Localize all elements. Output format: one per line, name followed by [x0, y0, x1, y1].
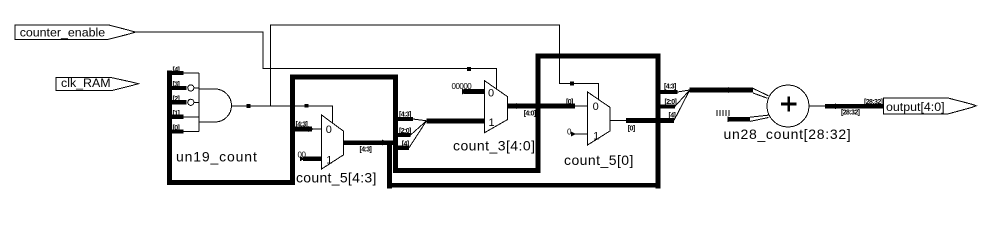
svg-text:count_3[4:0]: count_3[4:0]	[453, 138, 535, 154]
svg-text:[28:32]: [28:32]	[841, 110, 860, 117]
svg-text:[4]: [4]	[669, 113, 676, 120]
svg-text:[4]: [4]	[402, 141, 409, 148]
svg-text:1: 1	[326, 154, 332, 166]
svg-text:0: 0	[488, 88, 494, 100]
svg-text:[4]: [4]	[173, 67, 180, 74]
svg-text:00000: 00000	[452, 82, 473, 91]
svg-text:un28_count[28:32]: un28_count[28:32]	[724, 126, 852, 142]
svg-text:1: 1	[489, 117, 495, 129]
svg-text:[2:0]: [2:0]	[399, 128, 411, 135]
svg-text:00: 00	[298, 151, 307, 160]
svg-text:[1]: [1]	[173, 111, 180, 118]
svg-text:0: 0	[593, 101, 599, 113]
svg-text:0: 0	[326, 124, 332, 136]
svg-text:output[4:0]: output[4:0]	[886, 100, 945, 114]
svg-text:[28:32]: [28:32]	[864, 99, 883, 106]
svg-text:[2]: [2]	[173, 96, 180, 103]
svg-text:[0]: [0]	[628, 126, 635, 133]
svg-text:[4:3]: [4:3]	[360, 147, 372, 154]
svg-text:[4:3]: [4:3]	[399, 112, 411, 119]
svg-text:[4:3]: [4:3]	[664, 84, 676, 91]
svg-text:un19_count: un19_count	[176, 149, 258, 165]
svg-text:1: 1	[593, 130, 599, 142]
svg-text:counter_enable: counter_enable	[20, 25, 106, 39]
svg-text:clk_RAM: clk_RAM	[61, 76, 111, 90]
svg-text:[2:0]: [2:0]	[665, 99, 677, 106]
svg-text:[4:0]: [4:0]	[524, 111, 536, 118]
svg-text:[4:3]: [4:3]	[296, 122, 308, 129]
svg-text:[0]: [0]	[566, 99, 573, 106]
svg-text:count_5[4:3]: count_5[4:3]	[296, 170, 377, 186]
svg-text:[0]: [0]	[173, 125, 180, 132]
svg-text:count_5[0]: count_5[0]	[564, 152, 634, 168]
svg-text:[3]: [3]	[173, 82, 180, 89]
